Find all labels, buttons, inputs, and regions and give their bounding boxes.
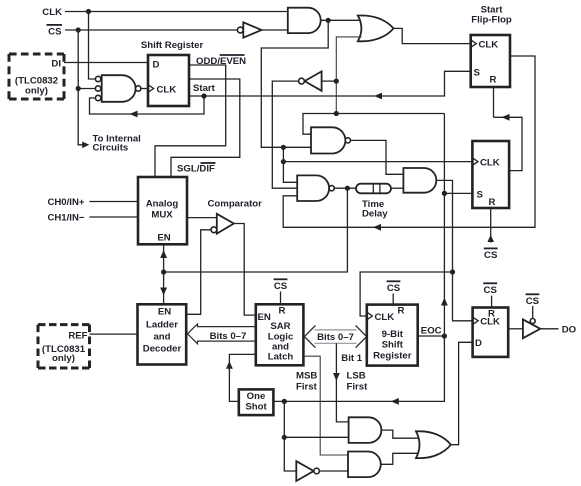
svg-text:R: R [398, 306, 405, 317]
nand gate G7 [297, 175, 329, 201]
svg-text:EN: EN [157, 233, 170, 244]
wire shift clock horizontal [360, 272, 452, 316]
junction EOC output [442, 333, 447, 338]
junction CS at NAND G1 input 2 [76, 86, 81, 91]
svg-text:CLK: CLK [480, 317, 500, 328]
wire U2 R stub [493, 87, 495, 117]
wire DO output [540, 328, 558, 330]
wire U3 output to U2 R [494, 117, 523, 170]
wire clock branch down [283, 147, 297, 182]
arrow EOC up [441, 298, 448, 306]
wire start feedback to G1 input 3 [90, 96, 205, 114]
wire MSB serial output to AND G10 [303, 356, 348, 455]
three-state buffer G13 [523, 319, 540, 338]
dashed box TLC0832 only [9, 54, 64, 99]
bus arrow Bits 0-7 double between SAR and shift register [315, 330, 357, 343]
overbar CS above G13 [526, 293, 540, 295]
input bubble G1 pin2 [95, 86, 100, 91]
svg-text:EN: EN [158, 306, 171, 317]
svg-text:only): only) [25, 85, 48, 96]
overbar EVEN [220, 54, 245, 56]
svg-text:Bit 1: Bit 1 [341, 353, 362, 364]
or gate G12 [416, 431, 451, 458]
junction EN [161, 269, 166, 274]
svg-text:SAR: SAR [270, 321, 290, 332]
wire G9 output to OR G12 [381, 430, 420, 438]
input bubble U5 [211, 227, 217, 233]
wire EOC to G5 input [322, 80, 337, 82]
sar logic and latch U7 box [256, 304, 304, 365]
wire REF to ladder [90, 333, 138, 335]
junction CS [76, 27, 81, 32]
arrow feedback left [130, 111, 138, 118]
arrow down into ladder EN [160, 288, 167, 296]
wire G2 output to AND G3 [262, 29, 288, 31]
svg-text:Bits 0–7: Bits 0–7 [317, 332, 354, 343]
wire CS stub to U10 R [491, 296, 493, 308]
svg-text:S: S [477, 189, 484, 200]
svg-text:REF: REF [68, 330, 87, 341]
time delay bar 2 [379, 184, 381, 194]
arrow down on Bit 1 wire [333, 373, 340, 381]
svg-text:CLK: CLK [42, 7, 62, 18]
9-bit shift register U9 box [367, 305, 418, 366]
svg-text:Latch: Latch [268, 352, 294, 363]
clock wedge U2 [471, 40, 477, 48]
output bubble G1 [136, 86, 141, 91]
wire U10 output to DO buffer [508, 328, 523, 330]
wire EOC main vertical to one shot [273, 114, 444, 402]
svg-text:Comparator: Comparator [208, 199, 263, 210]
arrow to internal circuits [82, 142, 89, 149]
and gate G9 [349, 417, 382, 443]
wire CS to NAND G1 input 2 [78, 88, 95, 90]
svg-text:CLK: CLK [480, 157, 500, 168]
junction clock at G6 input 2 [281, 145, 286, 150]
svg-text:CS: CS [526, 296, 540, 307]
wire G5 output to NAND G7 input 2 [272, 81, 298, 188]
svg-text:CS: CS [484, 285, 498, 296]
bus arrow Bits 0-7 to ladder [188, 324, 256, 344]
wire CS stub to SAR R [280, 292, 282, 305]
wire ladder feedback to comparator inverted input [186, 230, 211, 314]
overbar CS [47, 24, 63, 26]
svg-text:R: R [489, 197, 496, 208]
svg-text:D: D [475, 338, 482, 349]
wire EN junction up to mux EN [163, 244, 165, 272]
and gate G10 [348, 452, 381, 478]
svg-text:EOC: EOC [421, 326, 442, 337]
svg-text:First: First [296, 382, 318, 393]
wire G8 output to shift clock vertical [436, 180, 472, 320]
clock wedge U1 [148, 85, 154, 93]
junction G3 output [326, 18, 331, 23]
wire EOC from U9 [418, 335, 445, 337]
junction AND G9 branch [282, 435, 287, 440]
wire EN junction down to ladder EN [163, 272, 165, 304]
junction G7 output [345, 186, 350, 191]
svg-text:MUX: MUX [151, 210, 173, 221]
svg-text:First: First [347, 382, 369, 393]
wire G12 output to U10 D [451, 342, 473, 444]
wire time delay to AND G8 input 2 [391, 187, 403, 189]
input bubble G2 [237, 27, 243, 33]
svg-text:CS: CS [274, 281, 288, 292]
arrow on U2 Q wire [373, 224, 381, 231]
svg-text:R: R [490, 75, 497, 86]
svg-text:DI: DI [51, 59, 61, 70]
junction shift clock [450, 269, 455, 274]
wire comparator output to SAR EN [234, 224, 256, 316]
wire U3 R stub from CS [490, 208, 492, 243]
input bubble G1 pin3 [95, 95, 100, 100]
nand gate G6 [311, 127, 345, 153]
wire G7 output down to EN junction [164, 188, 348, 272]
wire CS stub to G13 enable [532, 306, 534, 318]
arrow up on one shot output [226, 361, 233, 369]
svg-text:SGL/DIF: SGL/DIF [177, 164, 215, 175]
overbar DIF [201, 162, 216, 164]
svg-text:CLK: CLK [375, 312, 395, 323]
wire CLK [65, 11, 288, 13]
inverter G5 (points left) [305, 71, 322, 90]
enable bubble G13 [530, 319, 535, 324]
junction EOC branch lower [334, 111, 339, 116]
internal clock wire from G3 junction [261, 20, 328, 147]
svg-text:only): only) [52, 353, 75, 364]
overbar CS above U9 [387, 280, 401, 282]
junction clock at U3 CLK wire [281, 159, 286, 164]
svg-text:Decoder: Decoder [143, 343, 182, 354]
overbar CS above U10 [483, 282, 497, 284]
arrow into U2 R [502, 114, 510, 121]
junction CLK [86, 9, 91, 14]
svg-text:CS: CS [484, 250, 498, 261]
arrow on start wire [374, 93, 382, 100]
input bubble G1 pin1 [95, 76, 100, 81]
wire EOC branch up to OR G4 lower input [336, 37, 361, 114]
svg-text:Start: Start [193, 83, 216, 94]
wire U2 Q output down [283, 56, 535, 227]
wire CLK to NAND G1 input 1 [89, 12, 95, 80]
inverter G2 on CS line [243, 22, 261, 37]
and gate G8 [403, 168, 436, 193]
wire Bit 1 down to AND G9 [336, 343, 348, 422]
clock wedge U10 [473, 317, 479, 325]
analog mux U4 box [138, 177, 187, 244]
wire CS vertical to internal circuits [78, 30, 83, 145]
svg-text:CS: CS [387, 283, 401, 294]
wire G7 output to time delay [334, 187, 356, 189]
wire DI to shift register D [64, 62, 148, 64]
arrow up into U3 R [487, 235, 494, 242]
inverter G11 [296, 461, 313, 481]
one shot U8 box [239, 389, 274, 415]
output flip-flop U10 box [473, 308, 509, 357]
wire G3 output to OR G4 [321, 19, 362, 21]
ladder and decoder U6 box [138, 304, 187, 364]
start flip-flop U2 box [471, 35, 510, 87]
wire one shot output to SAR [229, 354, 255, 401]
svg-text:Circuits: Circuits [93, 143, 129, 154]
arrow EOC to one shot [391, 398, 399, 405]
svg-text:Delay: Delay [362, 209, 388, 220]
overbar CS above SAR [274, 278, 288, 280]
svg-text:Bits 0–7: Bits 0–7 [210, 331, 247, 342]
output bubble G5 [299, 78, 305, 84]
svg-text:9-Bit: 9-Bit [382, 329, 404, 340]
wire G6 output to AND G8 input 1 [351, 140, 404, 174]
wire G11 output to AND G10 input 2 [319, 470, 348, 472]
svg-text:DO: DO [562, 325, 577, 336]
time delay bar 1 [372, 184, 374, 194]
and gate G3 [288, 8, 321, 33]
svg-text:CH1/IN−: CH1/IN− [47, 213, 84, 224]
or gate G4 [358, 16, 394, 42]
output bubble G6 [345, 138, 350, 143]
wire G4 output to start flip-flop CLK [394, 28, 471, 43]
wire G1 output to shift register CLK [141, 88, 148, 90]
svg-text:CLK: CLK [157, 84, 177, 95]
wire SGL/DIF to analog mux [171, 79, 240, 177]
shift register U1 box [148, 55, 189, 106]
output bubble G7 [329, 186, 334, 191]
svg-text:ODD/EVEN: ODD/EVEN [196, 56, 246, 67]
time delay element [356, 184, 391, 194]
clock flip-flop U3 box [472, 141, 509, 208]
junction one shot input tap [282, 399, 287, 404]
wire ODD/EVEN to analog mux [155, 65, 226, 177]
wire CH1/IN- [89, 216, 138, 218]
wire clock to U3 CLK [283, 161, 472, 163]
dashed box TLC0831 only [38, 325, 90, 368]
output bubble G11 [314, 468, 320, 474]
overbar CS below U3 [484, 247, 498, 249]
svg-text:Analog: Analog [146, 199, 179, 210]
svg-text:Shift Register: Shift Register [141, 40, 204, 51]
wire CS [65, 29, 237, 31]
svg-text:CLK: CLK [479, 39, 499, 50]
svg-text:Shift: Shift [382, 340, 404, 351]
junction EOC at U3 S [442, 191, 447, 196]
svg-text:MSB: MSB [296, 371, 317, 382]
wire CS stub to U9 R [392, 294, 394, 305]
wire Start to S of start flip-flop [189, 71, 472, 96]
junction Start [201, 93, 206, 98]
svg-text:R: R [279, 306, 286, 317]
svg-text:EN: EN [258, 312, 271, 323]
svg-text:Ladder: Ladder [146, 319, 178, 330]
clock wedge U9 [367, 312, 373, 320]
svg-text:S: S [474, 67, 481, 78]
wire G10 output to OR G12 [381, 453, 420, 464]
junction EOC branch at inverter G5 [334, 79, 339, 84]
wire branch to AND G9 input 2 [284, 436, 348, 438]
wire EOC horizontal to NAND G6 input 1 [303, 114, 444, 135]
svg-text:Shot: Shot [245, 402, 267, 413]
svg-text:Flip-Flop: Flip-Flop [471, 14, 512, 25]
arrow up into mux EN [160, 250, 167, 258]
wire mux output to comparator input [187, 217, 217, 219]
svg-text:LSB: LSB [347, 371, 366, 382]
clock wedge U3 [472, 158, 478, 166]
svg-text:and: and [153, 331, 170, 342]
nand gate G1 (3 inverted inputs) [102, 75, 136, 102]
comparator U5 [217, 214, 234, 234]
svg-text:CH0/IN+: CH0/IN+ [47, 197, 84, 208]
svg-text:D: D [153, 60, 160, 71]
svg-text:CS: CS [48, 27, 62, 38]
wire CH0/IN+ [89, 201, 138, 203]
wire tap down to G10/G11 [284, 401, 296, 471]
wire EOC to U3 S [444, 192, 472, 194]
svg-text:Register: Register [373, 351, 412, 362]
